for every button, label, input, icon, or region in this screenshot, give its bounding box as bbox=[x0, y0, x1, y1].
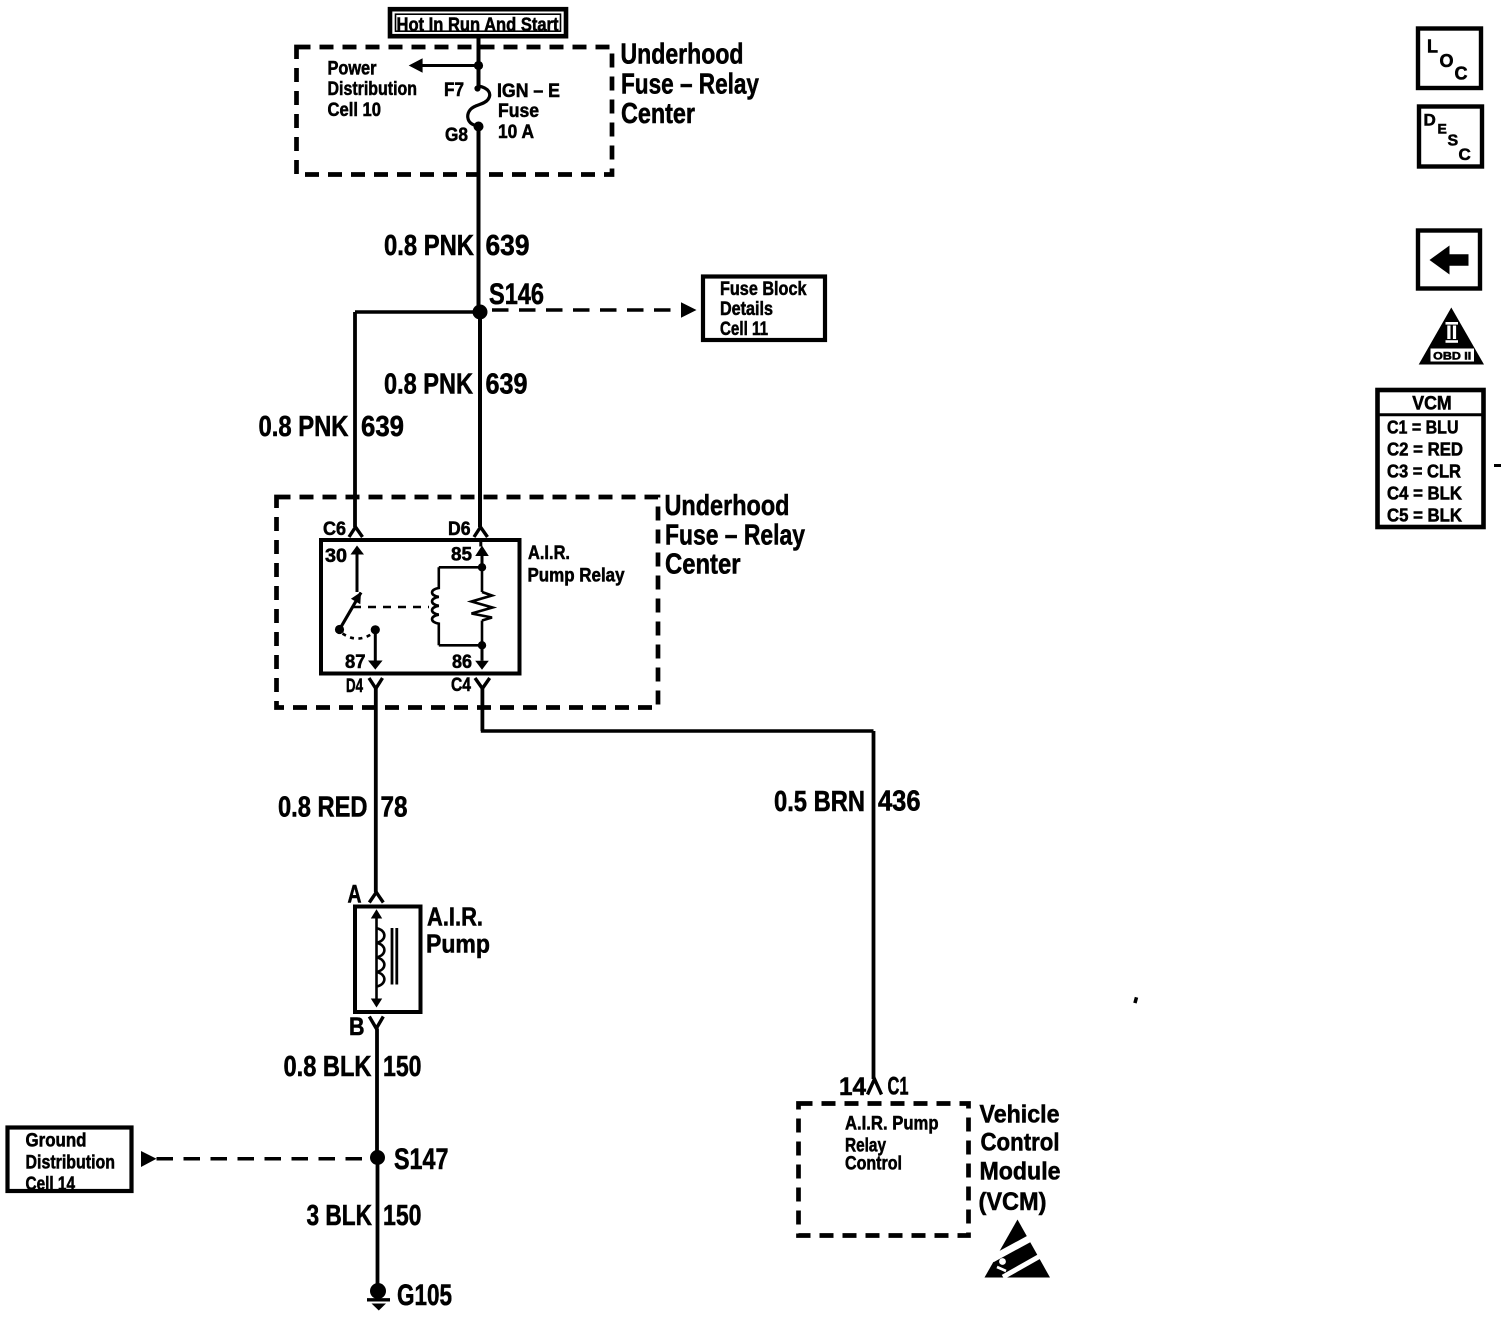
svg-text:150: 150 bbox=[383, 1200, 422, 1232]
svg-text:0.8 PNK: 0.8 PNK bbox=[259, 411, 349, 443]
wire B down to S147 bbox=[375, 1029, 379, 1158]
svg-text:0.8 PNK: 0.8 PNK bbox=[384, 230, 474, 262]
svg-text:E: E bbox=[1438, 121, 1447, 137]
svg-text:C1 = BLU: C1 = BLU bbox=[1387, 418, 1459, 438]
svg-text:A.I.R.: A.I.R. bbox=[528, 543, 570, 564]
label A.I.R. Pump Relay bbox=[528, 543, 625, 587]
junction node at fuse F7 bbox=[474, 61, 483, 70]
VCM dashed box A.I.R. Pump Relay Control bbox=[799, 1104, 969, 1236]
splice node S147 bbox=[370, 1150, 385, 1165]
wire label 0.8 RED 78 bbox=[278, 792, 408, 824]
relay pin 87 bbox=[345, 652, 366, 673]
svg-text:436: 436 bbox=[878, 786, 921, 818]
wire label 0.8 PNK 639 (middle) bbox=[384, 369, 528, 401]
svg-text:Distribution: Distribution bbox=[328, 79, 418, 100]
svg-text:Underhood: Underhood bbox=[665, 490, 790, 522]
svg-text:G8: G8 bbox=[445, 125, 468, 146]
pump motor symbol (shaft with arrows, coil, brushes) bbox=[371, 909, 397, 1007]
svg-text:Center: Center bbox=[665, 549, 741, 581]
svg-text:30: 30 bbox=[325, 546, 347, 567]
svg-text:78: 78 bbox=[381, 792, 408, 824]
svg-text:639: 639 bbox=[486, 230, 530, 262]
svg-text:VCM: VCM bbox=[1412, 394, 1452, 415]
node coil bottom bbox=[478, 641, 486, 649]
wire label 0.8 PNK 639 (left) bbox=[259, 411, 405, 443]
svg-text:Fuse – Relay: Fuse – Relay bbox=[665, 520, 805, 552]
svg-text:C: C bbox=[1459, 145, 1471, 164]
wire D4 down to pump A bbox=[374, 689, 378, 893]
svg-text:(VCM): (VCM) bbox=[979, 1188, 1047, 1216]
arrow to power distribution bbox=[409, 58, 479, 73]
label S147 bbox=[394, 1143, 449, 1176]
reference box Fuse Block Details Cell 11 bbox=[703, 277, 825, 341]
wire S147 to ground bbox=[376, 1158, 380, 1286]
wire left branch down to C6 bbox=[353, 312, 357, 527]
relay actuation dashed link bbox=[353, 606, 429, 609]
wire label 3 BLK 150 bbox=[307, 1200, 422, 1232]
power tag box "Hot In Run And Start" bbox=[390, 9, 566, 36]
svg-text:Module: Module bbox=[980, 1158, 1061, 1186]
svg-text:C1: C1 bbox=[888, 1073, 909, 1101]
svg-text:A.I.R. Pump: A.I.R. Pump bbox=[845, 1114, 939, 1135]
label G105 bbox=[397, 1279, 452, 1312]
underhood fuse-relay center dashed box (relay) bbox=[277, 497, 659, 708]
svg-text:Fuse: Fuse bbox=[498, 101, 539, 122]
svg-text:OBD II: OBD II bbox=[1433, 351, 1471, 363]
pin label G8 bbox=[445, 125, 468, 146]
svg-text:Hot In Run And Start: Hot In Run And Start bbox=[397, 15, 560, 36]
relay blade swing dashed arc bbox=[343, 634, 373, 639]
label Power Distribution Cell 10 bbox=[328, 58, 418, 121]
relay pin 85 arrow up bbox=[475, 546, 489, 568]
wire C4 down then right to VCM bbox=[481, 689, 874, 1080]
svg-text:F7: F7 bbox=[444, 80, 464, 101]
svg-text:14: 14 bbox=[839, 1073, 866, 1101]
svg-text:A: A bbox=[348, 881, 362, 909]
svg-text:Power: Power bbox=[328, 58, 378, 79]
svg-text:Cell 11: Cell 11 bbox=[720, 319, 768, 340]
dashed reference arrow S146 to Fuse Block Details bbox=[492, 302, 697, 318]
splice node S146 bbox=[473, 305, 488, 320]
wire from Hot box to junction bbox=[477, 37, 481, 66]
scan speckle marks bbox=[1133, 464, 1501, 1004]
LOC legend box bbox=[1418, 29, 1481, 89]
svg-text:IGN – E: IGN – E bbox=[497, 81, 560, 102]
relay switch blade bbox=[340, 592, 362, 630]
connector pin A bbox=[348, 881, 384, 909]
pin label F7 bbox=[444, 80, 464, 101]
label Underhood Fuse-Relay Center (relay) bbox=[665, 490, 806, 581]
label A.I.R. Pump bbox=[426, 902, 490, 959]
svg-text:S147: S147 bbox=[394, 1143, 449, 1176]
svg-text:150: 150 bbox=[383, 1051, 422, 1083]
svg-text:Vehicle: Vehicle bbox=[980, 1101, 1060, 1129]
back arrow legend box bbox=[1418, 231, 1480, 289]
node at fuse bottom G8 bbox=[474, 122, 484, 132]
DESC legend box bbox=[1419, 107, 1482, 167]
relay pin 86 arrow down bbox=[475, 645, 489, 670]
svg-text:Fuse – Relay: Fuse – Relay bbox=[621, 68, 759, 100]
svg-text:639: 639 bbox=[361, 411, 404, 443]
connector pin 14 C1 bbox=[839, 1073, 909, 1102]
svg-text:10 A: 10 A bbox=[498, 122, 534, 143]
svg-text:Underhood: Underhood bbox=[621, 39, 744, 71]
svg-text:Fuse Block: Fuse Block bbox=[720, 279, 807, 300]
svg-text:G105: G105 bbox=[397, 1279, 452, 1312]
relay contact 87 arrow down bbox=[368, 630, 383, 670]
connector pin B bbox=[349, 1013, 383, 1041]
wire label 0.8 PNK 639 (upper) bbox=[384, 230, 530, 262]
relay pin 30 bbox=[325, 546, 347, 567]
svg-text:Pump: Pump bbox=[426, 929, 490, 959]
dashed reference arrow to S147 bbox=[141, 1151, 370, 1167]
svg-text:0.8 BLK: 0.8 BLK bbox=[284, 1051, 372, 1083]
wire branch horizontal at S146 bbox=[355, 310, 480, 314]
svg-text:Ground: Ground bbox=[26, 1131, 87, 1152]
relay K1 A.I.R. Pump Relay box bbox=[321, 540, 520, 674]
svg-text:D4: D4 bbox=[346, 676, 363, 697]
relay coil bbox=[432, 567, 482, 645]
connector pin D6 bbox=[448, 519, 488, 540]
relay pin 85 bbox=[451, 545, 472, 566]
svg-text:C6: C6 bbox=[323, 519, 346, 540]
resistor (relay suppression) bbox=[472, 567, 493, 645]
wire label 0.8 BLK 150 bbox=[284, 1051, 422, 1083]
wire D6 into relay bbox=[479, 540, 482, 547]
svg-text:D: D bbox=[1424, 111, 1436, 130]
OBD II triangle symbol bbox=[1419, 308, 1484, 365]
svg-text:86: 86 bbox=[452, 652, 472, 673]
relay pin 86 bbox=[452, 652, 472, 673]
svg-text:L: L bbox=[1427, 37, 1438, 57]
svg-text:Cell 10: Cell 10 bbox=[328, 100, 382, 121]
fuse IGN-E 10A (S-curve symbol) bbox=[468, 85, 490, 126]
relay contact 30 arrow bbox=[351, 546, 365, 593]
svg-text:0.8 RED: 0.8 RED bbox=[278, 792, 368, 824]
svg-text:S: S bbox=[1448, 133, 1459, 150]
svg-text:D6: D6 bbox=[448, 519, 471, 540]
connector pin C4 bbox=[451, 675, 490, 696]
svg-text:87: 87 bbox=[345, 652, 366, 673]
wire junction to fuse bbox=[477, 66, 481, 87]
label Underhood Fuse-Relay Center (top) bbox=[621, 39, 760, 130]
svg-text:S146: S146 bbox=[489, 278, 544, 311]
label Vehicle Control Module (VCM) bbox=[979, 1101, 1061, 1217]
svg-text:0.5 BRN: 0.5 BRN bbox=[774, 786, 865, 818]
svg-text:A.I.R.: A.I.R. bbox=[427, 902, 483, 932]
svg-text:C5 = BLK: C5 = BLK bbox=[1387, 506, 1462, 526]
svg-text:C4: C4 bbox=[451, 675, 471, 696]
svg-text:C2 = RED: C2 = RED bbox=[1387, 440, 1463, 460]
svg-text:O: O bbox=[1440, 51, 1454, 71]
underhood fuse-relay center dashed box (top) bbox=[297, 47, 613, 175]
VCM connector legend table bbox=[1378, 390, 1484, 527]
svg-text:85: 85 bbox=[451, 545, 472, 566]
svg-text:Details: Details bbox=[720, 299, 773, 320]
svg-text:3 BLK: 3 BLK bbox=[307, 1200, 373, 1232]
svg-text:Center: Center bbox=[621, 98, 695, 130]
svg-text:Distribution: Distribution bbox=[26, 1153, 116, 1174]
wire label 0.5 BRN 436 bbox=[774, 786, 921, 819]
svg-text:B: B bbox=[349, 1013, 365, 1041]
svg-text:C: C bbox=[1455, 64, 1468, 84]
ESD sensitivity symbol bbox=[985, 1220, 1051, 1278]
svg-text:C3 = CLR: C3 = CLR bbox=[1387, 462, 1461, 482]
wire S146 down to D6 bbox=[478, 312, 482, 527]
svg-text:Control: Control bbox=[845, 1154, 902, 1175]
connector pin D4 bbox=[346, 676, 383, 697]
fuse value label IGN-E Fuse 10 A bbox=[497, 81, 560, 143]
node coil top bbox=[478, 563, 486, 571]
connector pin C6 bbox=[323, 519, 363, 540]
svg-text:Pump Relay: Pump Relay bbox=[528, 566, 625, 587]
relay contact 87 node bbox=[371, 625, 380, 634]
svg-text:C4 = BLK: C4 = BLK bbox=[1387, 484, 1462, 504]
relay switch common node bbox=[335, 625, 344, 634]
label S146 bbox=[489, 278, 544, 311]
ground G105 symbol bbox=[367, 1283, 390, 1311]
svg-text:Cell 14: Cell 14 bbox=[26, 1174, 76, 1195]
svg-text:639: 639 bbox=[486, 369, 528, 401]
reference box Ground Distribution Cell 14 bbox=[8, 1128, 132, 1196]
svg-text:0.8 PNK: 0.8 PNK bbox=[384, 369, 473, 401]
motor M1 A.I.R. Pump box bbox=[355, 907, 421, 1013]
svg-text:Control: Control bbox=[981, 1129, 1060, 1157]
wire fuse to S146 bbox=[477, 127, 481, 313]
